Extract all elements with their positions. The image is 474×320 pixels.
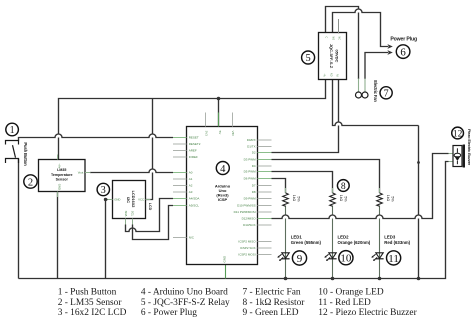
svg-text:D0/RX: D0/RX <box>247 138 256 142</box>
callout circle 12 <box>452 127 464 139</box>
LM35 temperature sensor U2 <box>39 160 86 192</box>
svg-text:GND: GND <box>57 184 61 190</box>
callout circle 4 <box>216 162 229 175</box>
svg-text:D5 PWM: D5 PWM <box>244 170 257 174</box>
relay JQC-3FF-S-Z K1 <box>319 33 347 80</box>
svg-text:ICSP: ICSP <box>218 197 228 202</box>
wire LCD SDA to arduino A4 (hop x132.5) <box>126 199 174 232</box>
svg-text:Red (633nm): Red (633nm) <box>384 240 410 245</box>
svg-text:11: 11 <box>388 253 399 265</box>
svg-text:RESET2: RESET2 <box>189 142 201 146</box>
svg-text:GND: GND <box>114 198 120 202</box>
power plug arrow 1 <box>387 44 392 49</box>
arduino left pin labels <box>189 136 201 240</box>
LM35 pin GND <box>57 192 59 198</box>
svg-text:2: 2 <box>28 177 33 188</box>
svg-text:5: 5 <box>305 53 310 64</box>
svg-text:1: 1 <box>10 125 15 136</box>
arduino right pin stubs <box>258 140 272 255</box>
svg-text:A3: A3 <box>189 190 193 194</box>
svg-text:6 - Power Plug: 6 - Power Plug <box>141 308 197 318</box>
svg-text:Sensor: Sensor <box>56 177 69 181</box>
svg-text:A1: A1 <box>189 177 193 181</box>
svg-text:D11 PWM/MOSI: D11 PWM/MOSI <box>234 210 256 214</box>
wire relay COM to fan <box>326 7 359 80</box>
svg-text:LCD16X2: LCD16X2 <box>131 191 135 208</box>
callout circle 3 <box>97 183 109 196</box>
wire LM35 GND to bus <box>57 192 59 279</box>
svg-text:Piezo Electric Buzzer: Piezo Electric Buzzer <box>467 129 472 166</box>
LED1 Green (555nm) <box>277 234 321 261</box>
node LED1 bus dot <box>284 277 288 281</box>
wire arduino D3 to R3 <box>272 160 380 193</box>
node 5V junction dot <box>217 97 221 101</box>
wire push button to arduino RESET (hops x58.5 x152.5) <box>19 134 174 140</box>
svg-text:D4: D4 <box>252 164 256 168</box>
arduino top pin stubs <box>206 113 233 127</box>
svg-text:ICSP2 SCK: ICSP2 SCK <box>240 246 256 250</box>
svg-text:6: 6 <box>400 46 406 58</box>
wire R1 to LED1 to bus <box>285 206 287 279</box>
svg-text:D3 PWM: D3 PWM <box>244 158 257 162</box>
svg-text:D13/SCK: D13/SCK <box>243 223 256 227</box>
svg-text:3V3: 3V3 <box>205 131 209 137</box>
LCD pin GND <box>108 199 113 201</box>
svg-text:IN: IN <box>337 74 340 77</box>
wire LCD VCC drop <box>146 99 153 200</box>
node LED2 bus dot <box>331 277 335 281</box>
svg-text:7 - Electric Fan: 7 - Electric Fan <box>243 288 301 298</box>
resistor R1 1k <box>283 188 301 206</box>
svg-text:Green (555nm): Green (555nm) <box>291 240 322 245</box>
power plug arrow 2 <box>387 50 392 55</box>
legend column 1 <box>58 288 127 319</box>
electric fan terminal 1 <box>358 79 360 93</box>
wire push button to bus <box>18 159 20 279</box>
svg-text:12: 12 <box>453 129 463 139</box>
arduino uno U1 body <box>187 127 258 265</box>
svg-text:AREF: AREF <box>189 149 197 153</box>
relay pin NC stub <box>338 19 340 34</box>
node LED3 bus dot <box>378 277 382 281</box>
wire arduino D6 to R1 <box>272 179 286 193</box>
push button SW1 <box>6 141 19 164</box>
legend column 2 <box>141 288 230 319</box>
wire LM35 Vout to arduino A0 (hop x152.5) <box>90 169 173 172</box>
svg-text:SDA: SDA <box>124 211 128 217</box>
svg-text:D6 PWM: D6 PWM <box>244 177 257 181</box>
callout circle 7 <box>380 87 392 100</box>
wire relay IN to arduino D2 <box>272 80 339 153</box>
svg-text:7: 7 <box>384 88 389 99</box>
svg-text:5%: 5% <box>391 196 395 202</box>
svg-text:I2C: I2C <box>126 197 130 203</box>
wire 5V rail <box>59 80 326 160</box>
svg-text:D1/TX: D1/TX <box>247 145 256 149</box>
svg-text:IOREF: IOREF <box>189 155 198 159</box>
svg-text:D9 PWM: D9 PWM <box>244 197 257 201</box>
hop masks (white half-discs over crossed verticals) <box>55 9 422 232</box>
legend column 3 <box>243 288 306 319</box>
svg-text:Vout: Vout <box>78 171 84 175</box>
svg-text:NO: NO <box>332 37 335 41</box>
svg-text:9 - Green LED: 9 - Green LED <box>243 308 299 318</box>
wire relay coil GND vertical <box>418 126 420 279</box>
wire relay coil- to GND (hop x338.5) <box>333 80 419 126</box>
callout circle 1 <box>6 123 19 136</box>
svg-text:A2: A2 <box>189 184 193 188</box>
svg-text:9: 9 <box>297 253 303 265</box>
svg-text:ICSP2 MISO: ICSP2 MISO <box>238 240 256 244</box>
piezo buzzer BZ1 <box>449 145 466 168</box>
svg-text:LCD: LCD <box>148 203 152 211</box>
svg-text:10 - Orange LED: 10 - Orange LED <box>318 288 384 298</box>
node relay GND bus dot <box>417 277 421 281</box>
svg-text:LED1: LED1 <box>291 234 303 239</box>
LM35 pin Vout <box>85 172 91 174</box>
svg-text:8 - 1kΩ Resistor: 8 - 1kΩ Resistor <box>243 298 306 308</box>
svg-text:GN: GN <box>331 73 334 77</box>
callout circle 11 <box>387 251 401 265</box>
relay pin labels <box>324 37 341 77</box>
wire GND bus <box>19 162 449 279</box>
wire arduino D5 to R2 <box>272 172 333 193</box>
svg-text:JQC-3FF-S-Z: JQC-3FF-S-Z <box>329 44 334 69</box>
LCD pin SDA <box>125 219 127 225</box>
electric fan terminal 2 <box>364 79 366 93</box>
svg-text:1kΩ: 1kΩ <box>339 195 343 202</box>
svg-text:GND: GND <box>223 255 227 263</box>
svg-text:A0: A0 <box>189 171 193 175</box>
arduino top pin labels <box>205 131 236 137</box>
svg-text:D2: D2 <box>252 151 256 155</box>
svg-text:NC: NC <box>338 37 341 41</box>
callout circle 8 <box>337 180 349 192</box>
svg-text:LED3: LED3 <box>384 234 396 239</box>
svg-text:VCC: VCC <box>138 198 144 202</box>
svg-text:4: 4 <box>220 164 226 175</box>
wire fan to power plug <box>365 53 388 80</box>
svg-text:A4/SDA: A4/SDA <box>189 197 200 201</box>
callout circle 10 <box>339 251 353 265</box>
svg-text:D12/MISO: D12/MISO <box>242 217 257 221</box>
svg-text:D7: D7 <box>252 184 256 188</box>
svg-text:1 - Push Button: 1 - Push Button <box>58 288 117 298</box>
svg-text:4 - Arduino Uno Board: 4 - Arduino Uno Board <box>141 288 228 298</box>
svg-text:8: 8 <box>341 181 346 192</box>
svg-text:D8: D8 <box>252 190 256 194</box>
arduino left pin stubs <box>173 138 187 238</box>
svg-text:Power Plug: Power Plug <box>390 37 417 43</box>
svg-text:VIN: VIN <box>231 131 235 136</box>
wire LCD SCL to arduino A5 <box>133 206 174 240</box>
callout circle 9 <box>292 251 306 265</box>
svg-text:A5/SCL: A5/SCL <box>189 204 200 208</box>
svg-text:5%: 5% <box>344 196 348 202</box>
svg-text:1kΩ: 1kΩ <box>386 195 390 202</box>
svg-text:ICSP2 MOSI: ICSP2 MOSI <box>238 253 255 257</box>
LM35 pin +Vs <box>57 155 59 160</box>
svg-text:11 - Red LED: 11 - Red LED <box>318 298 371 308</box>
svg-text:LM35: LM35 <box>57 168 66 172</box>
svg-text:SCL: SCL <box>131 211 135 217</box>
svg-text:05VDC: 05VDC <box>334 50 339 63</box>
svg-text:D10 PWM/SS: D10 PWM/SS <box>237 204 256 208</box>
LCD 16x2 I2C module <box>113 181 146 219</box>
callout circle 2 <box>24 175 37 188</box>
svg-text:Electric Fan: Electric Fan <box>373 80 378 102</box>
legend column 4 <box>318 288 417 319</box>
node LCD GND dot <box>104 198 107 201</box>
LCD pin SCL <box>132 219 134 225</box>
arduino right pin labels <box>234 138 257 257</box>
svg-text:RESET: RESET <box>189 136 199 140</box>
svg-text:3 - 16x2 I2C LCD: 3 - 16x2 I2C LCD <box>58 308 127 318</box>
svg-text:3: 3 <box>101 185 106 196</box>
callout circle 5 <box>302 51 315 64</box>
svg-text:5 - JQC-3FF-S-Z Relay: 5 - JQC-3FF-S-Z Relay <box>141 298 230 308</box>
wire relay NO to power plug (hop x358.5) <box>333 9 389 47</box>
wire arduino 5V drop <box>218 99 220 127</box>
callout circle 6 <box>396 45 410 59</box>
svg-text:N/C: N/C <box>189 236 195 240</box>
svg-text:2 - LM35 Sensor: 2 - LM35 Sensor <box>58 298 123 308</box>
svg-text:LED2: LED2 <box>338 234 350 239</box>
wire arduino D12 to buzzer (hops over LED and GND verticals) <box>272 154 449 219</box>
LED3 Red (633nm) <box>371 234 410 261</box>
wire R3 to LED3 to bus <box>379 206 381 279</box>
svg-text:Push Button: Push Button <box>23 142 28 166</box>
svg-text:Temperature: Temperature <box>51 173 73 177</box>
wire arduino GND to bus <box>225 265 227 279</box>
LCD pin VCC <box>146 199 151 201</box>
svg-text:5%: 5% <box>297 196 301 202</box>
svg-text:1kΩ: 1kΩ <box>292 195 296 202</box>
wire R2 to LED2 to bus <box>332 206 334 279</box>
svg-text:Orange (620nm): Orange (620nm) <box>338 240 371 245</box>
svg-text:5V: 5V <box>218 131 222 135</box>
svg-text:C: C <box>325 37 328 39</box>
LED2 Orange (620nm) <box>324 234 370 261</box>
wire LCD GND to bus <box>106 200 109 279</box>
node relay GND wire dot <box>417 161 420 164</box>
svg-text:10: 10 <box>340 253 352 265</box>
resistor R2 1k <box>330 188 348 206</box>
svg-text:+Vs: +Vs <box>57 163 61 168</box>
resistor R3 1k <box>377 188 395 206</box>
svg-text:12 - Piezo Electric Buzzer: 12 - Piezo Electric Buzzer <box>318 308 417 318</box>
